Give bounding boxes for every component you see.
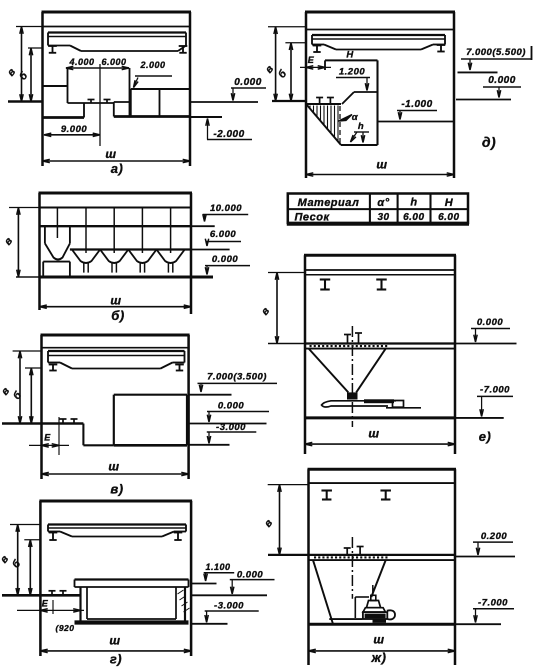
svg-text:б): б) bbox=[111, 308, 124, 323]
svg-text:а): а) bbox=[111, 161, 124, 176]
svg-text:ш: ш bbox=[108, 460, 119, 474]
svg-text:-1.000: -1.000 bbox=[401, 99, 432, 110]
svg-text:6.00: 6.00 bbox=[403, 212, 424, 223]
svg-text:ш: ш bbox=[368, 427, 379, 441]
svg-text:Е: Е bbox=[44, 433, 51, 443]
svg-text:7.000(3.500): 7.000(3.500) bbox=[207, 372, 267, 383]
svg-text:(920: (920 bbox=[55, 623, 74, 633]
svg-text:Н: Н bbox=[445, 197, 454, 209]
svg-text:г): г) bbox=[110, 652, 122, 667]
svg-text:0.000: 0.000 bbox=[218, 401, 244, 412]
svg-text:Материал: Материал bbox=[298, 197, 360, 209]
svg-text:е): е) bbox=[479, 429, 492, 444]
svg-text:ш: ш bbox=[373, 633, 384, 647]
svg-text:Песок: Песок bbox=[294, 211, 330, 223]
svg-text:0.000: 0.000 bbox=[212, 254, 238, 265]
svg-text:Е: Е bbox=[42, 599, 49, 609]
svg-text:4.000: 4.000 bbox=[68, 57, 94, 67]
svg-text:9.000: 9.000 bbox=[61, 124, 87, 135]
svg-text:0.000: 0.000 bbox=[234, 77, 262, 88]
svg-text:10.000: 10.000 bbox=[210, 203, 242, 214]
svg-text:6.00: 6.00 bbox=[438, 212, 459, 223]
svg-text:-7.000: -7.000 bbox=[480, 385, 510, 396]
svg-text:6.000: 6.000 bbox=[210, 229, 236, 240]
svg-text:-7.000: -7.000 bbox=[478, 598, 508, 609]
svg-text:0.200: 0.200 bbox=[481, 531, 507, 542]
svg-text:h: h bbox=[410, 197, 417, 209]
svg-text:ш: ш bbox=[105, 147, 116, 161]
svg-text:6.000: 6.000 bbox=[101, 57, 126, 67]
svg-text:1.200: 1.200 bbox=[339, 67, 365, 78]
svg-text:0.000: 0.000 bbox=[488, 75, 516, 86]
svg-text:Н: Н bbox=[346, 50, 354, 61]
svg-text:ш: ш bbox=[376, 158, 387, 172]
svg-text:α°: α° bbox=[377, 197, 389, 209]
svg-text:-2.000: -2.000 bbox=[213, 129, 244, 140]
svg-text:в): в) bbox=[110, 482, 123, 497]
svg-text:0.000: 0.000 bbox=[237, 570, 263, 581]
svg-text:ж): ж) bbox=[371, 650, 387, 665]
svg-text:д): д) bbox=[482, 134, 496, 150]
svg-text:7.000(5.500): 7.000(5.500) bbox=[466, 47, 526, 58]
svg-text:2.000: 2.000 bbox=[139, 60, 165, 70]
svg-text:ш: ш bbox=[109, 634, 120, 648]
svg-text:h: h bbox=[358, 121, 364, 132]
svg-text:30: 30 bbox=[377, 212, 389, 223]
svg-text:-3.000: -3.000 bbox=[214, 601, 244, 612]
svg-text:ш: ш bbox=[110, 294, 121, 308]
svg-text:Е: Е bbox=[308, 55, 315, 65]
svg-text:0.000: 0.000 bbox=[477, 317, 503, 328]
svg-text:1.100: 1.100 bbox=[205, 562, 230, 572]
